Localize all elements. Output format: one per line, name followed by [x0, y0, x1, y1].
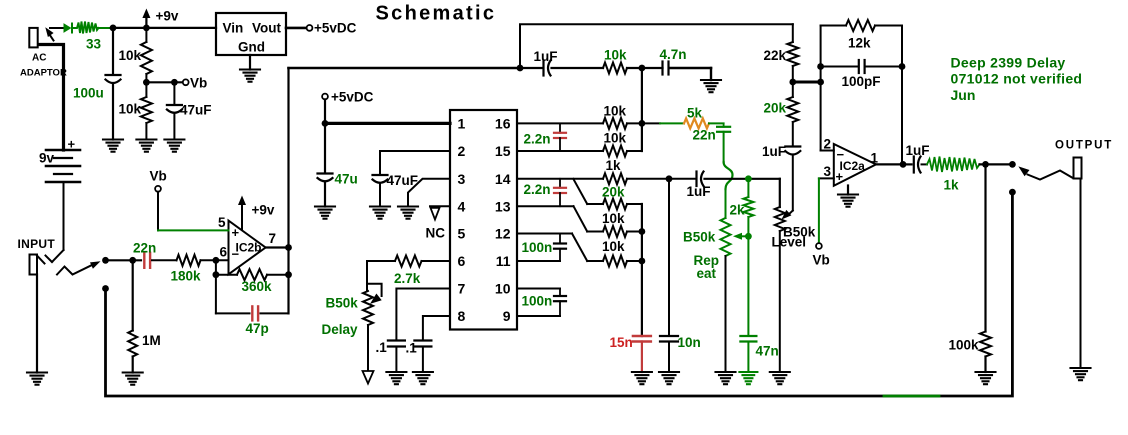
svg-text:Level: Level [772, 235, 807, 250]
svg-text:ADAPTOR: ADAPTOR [20, 68, 67, 79]
svg-text:3: 3 [824, 164, 832, 179]
svg-text:INPUT: INPUT [18, 237, 56, 251]
svg-text:2.2n: 2.2n [524, 182, 551, 197]
svg-text:13: 13 [495, 198, 511, 214]
svg-text:14: 14 [495, 171, 511, 187]
svg-text:10k: 10k [602, 211, 625, 226]
svg-text:AC: AC [32, 53, 46, 64]
svg-text:Vb: Vb [813, 253, 830, 268]
svg-text:eat: eat [697, 266, 717, 281]
svg-text:IC2a: IC2a [840, 159, 866, 173]
svg-text:B50k: B50k [683, 230, 716, 245]
svg-text:100n: 100n [522, 240, 553, 255]
svg-text:10n: 10n [678, 335, 701, 350]
svg-text:NC: NC [426, 226, 446, 241]
svg-text:+5vDC: +5vDC [331, 90, 374, 105]
svg-text:5k: 5k [687, 106, 703, 121]
svg-text:1uF: 1uF [687, 184, 711, 199]
svg-text:22n: 22n [693, 128, 716, 143]
svg-text:47uF: 47uF [387, 173, 419, 188]
svg-text:Gnd: Gnd [238, 40, 265, 55]
svg-text:16: 16 [495, 116, 511, 132]
svg-text:100k: 100k [949, 338, 980, 353]
svg-text:.1: .1 [376, 340, 388, 355]
svg-text:1k: 1k [944, 178, 960, 193]
svg-text:10k: 10k [604, 131, 627, 146]
svg-text:4: 4 [458, 198, 466, 214]
svg-text:1uF: 1uF [762, 144, 786, 159]
svg-text:6: 6 [220, 245, 228, 260]
svg-text:20k: 20k [602, 185, 625, 200]
svg-text:IC2b: IC2b [236, 241, 262, 255]
svg-text:12k: 12k [848, 36, 871, 51]
svg-text:7: 7 [269, 231, 277, 246]
svg-text:+5vDC: +5vDC [314, 21, 357, 36]
svg-text:2k: 2k [730, 203, 746, 218]
svg-text:OUTPUT: OUTPUT [1055, 140, 1113, 152]
svg-text:47u: 47u [335, 172, 358, 187]
svg-text:Jun: Jun [951, 87, 976, 103]
svg-text:Vin: Vin [223, 21, 244, 36]
svg-text:11: 11 [496, 253, 511, 269]
svg-text:1: 1 [871, 151, 879, 166]
svg-text:6: 6 [458, 253, 466, 269]
svg-text:360k: 360k [242, 279, 273, 294]
svg-text:3: 3 [458, 171, 466, 187]
svg-text:1k: 1k [606, 158, 622, 173]
svg-text:5: 5 [458, 226, 466, 242]
svg-text:9v: 9v [39, 151, 55, 166]
svg-text:Vb: Vb [150, 169, 167, 184]
svg-text:8: 8 [458, 308, 466, 324]
svg-text:2.7k: 2.7k [394, 271, 421, 286]
svg-text:180k: 180k [171, 269, 202, 284]
svg-text:Deep 2399 Delay: Deep 2399 Delay [951, 55, 1066, 71]
svg-text:10k: 10k [119, 48, 142, 63]
svg-text:47p: 47p [246, 321, 269, 336]
svg-text:22k: 22k [764, 48, 787, 63]
svg-text:15: 15 [495, 143, 511, 159]
svg-text:10: 10 [495, 281, 511, 297]
svg-text:Vout: Vout [252, 21, 281, 36]
svg-text:Schematic: Schematic [376, 3, 497, 25]
svg-text:10k: 10k [602, 239, 625, 254]
svg-text:5: 5 [218, 215, 226, 230]
svg-text:2: 2 [458, 143, 466, 159]
svg-text:+: + [232, 225, 240, 240]
svg-text:15n: 15n [610, 335, 633, 350]
svg-text:20k: 20k [764, 101, 787, 116]
svg-text:9: 9 [503, 308, 511, 324]
svg-text:1M: 1M [142, 333, 161, 348]
svg-text:071012 not verified: 071012 not verified [951, 71, 1083, 87]
svg-text:12: 12 [495, 226, 511, 242]
svg-text:1uF: 1uF [534, 49, 558, 64]
svg-text:2.2n: 2.2n [524, 132, 551, 147]
svg-text:4.7n: 4.7n [660, 47, 687, 62]
svg-text:2: 2 [824, 137, 832, 152]
svg-text:100pF: 100pF [842, 74, 881, 89]
svg-text:10k: 10k [119, 102, 142, 117]
svg-text:7: 7 [458, 281, 466, 297]
svg-text:.1: .1 [406, 341, 418, 356]
svg-text:+9v: +9v [252, 203, 275, 218]
svg-text:10k: 10k [604, 104, 627, 119]
svg-text:Delay: Delay [322, 322, 359, 337]
svg-text:1: 1 [458, 116, 466, 132]
svg-text:B50k: B50k [326, 296, 359, 311]
svg-text:47n: 47n [756, 344, 779, 359]
svg-text:100u: 100u [73, 86, 104, 101]
svg-text:+9v: +9v [156, 9, 179, 24]
svg-text:22n: 22n [133, 241, 156, 256]
svg-text:100n: 100n [522, 294, 553, 309]
svg-text:1uF: 1uF [906, 143, 930, 158]
svg-text:33: 33 [86, 37, 102, 52]
svg-text:47uF: 47uF [180, 103, 212, 118]
svg-text:10k: 10k [604, 48, 627, 63]
svg-text:Vb: Vb [190, 76, 207, 91]
